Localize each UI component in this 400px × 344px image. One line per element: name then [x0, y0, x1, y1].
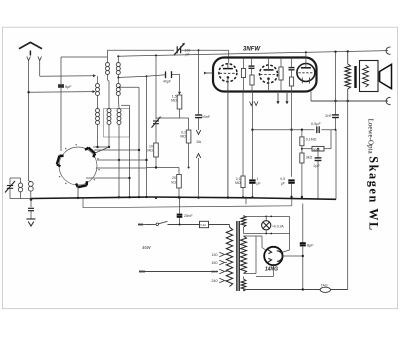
svg-text:46W: 46W	[142, 245, 152, 250]
svg-text:μF: μF	[257, 181, 261, 185]
svg-text:7AG: 7AG	[321, 284, 328, 288]
svg-text:3NFW: 3NFW	[243, 47, 261, 53]
svg-text:53nF: 53nF	[202, 115, 211, 119]
svg-text:Skagen WL: Skagen WL	[367, 156, 381, 231]
svg-text:150: 150	[211, 261, 217, 265]
svg-text:MΩ: MΩ	[147, 149, 153, 153]
svg-text:1: 1	[257, 177, 259, 181]
svg-text:0,3A: 0,3A	[200, 223, 206, 227]
svg-text:5A: 5A	[197, 140, 202, 144]
svg-text:MΩ: MΩ	[235, 181, 241, 185]
svg-text:130: 130	[211, 253, 217, 257]
svg-text:Loewe-Opta: Loewe-Opta	[367, 119, 375, 155]
svg-text:14NG: 14NG	[265, 267, 278, 273]
svg-text:8μF: 8μF	[307, 243, 314, 247]
svg-text:220: 220	[211, 270, 217, 274]
svg-text:3kΩ: 3kΩ	[306, 156, 313, 160]
svg-text:≈6 0,3A: ≈6 0,3A	[272, 225, 284, 229]
svg-text:0,5: 0,5	[280, 177, 285, 181]
svg-text:MΩ: MΩ	[180, 135, 186, 139]
svg-text:0,5μF: 0,5μF	[311, 122, 321, 126]
svg-text:5000: 5000	[313, 147, 320, 151]
svg-text:kΩ: kΩ	[172, 181, 177, 185]
svg-text:0,1MΩ: 0,1MΩ	[306, 138, 317, 142]
svg-text:40μF: 40μF	[163, 79, 171, 83]
svg-text:5pF: 5pF	[65, 85, 72, 89]
svg-text:μF: μF	[281, 181, 285, 185]
svg-text:2μF: 2μF	[314, 164, 321, 168]
svg-text:240: 240	[211, 279, 217, 283]
svg-text:2nF: 2nF	[325, 114, 332, 118]
svg-text:20: 20	[172, 176, 176, 180]
svg-text:25nF: 25nF	[184, 214, 193, 218]
svg-text:MΩ: MΩ	[171, 99, 177, 103]
